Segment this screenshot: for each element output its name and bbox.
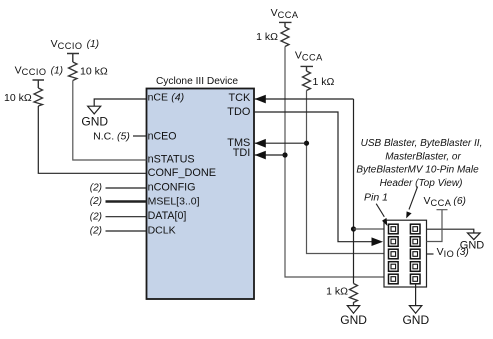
- power VCCA first bar symbol: [279, 22, 292, 27]
- svg-text:DATA[0]: DATA[0]: [148, 210, 187, 222]
- wire R1 to nSTATUS: [73, 81, 147, 161]
- svg-text:GND: GND: [340, 313, 367, 327]
- pin 10 square: [410, 274, 420, 284]
- power VCCA (6) bar symbol: [427, 210, 448, 242]
- pointer Pin 1 arrow: [376, 204, 384, 217]
- pin 5 square: [389, 249, 399, 259]
- junction dot TMS: [304, 141, 309, 146]
- junction dot TDI: [282, 152, 287, 157]
- wire header pin2 to GND: [427, 229, 474, 233]
- header J1 pins (both columns): [389, 224, 421, 284]
- resistor R5 1k zigzag: [350, 284, 358, 306]
- wire MSEL bus stub: [106, 200, 147, 202]
- pin 2 square: [410, 224, 420, 234]
- wire nCEO stub: [133, 135, 147, 137]
- svg-text:GND: GND: [81, 114, 108, 128]
- svg-text:ByteBlasterMV 10-Pin Male: ByteBlasterMV 10-Pin Male: [356, 165, 479, 176]
- arrowhead TMS into device: [255, 139, 266, 148]
- arrowhead TCK into device: [255, 95, 266, 104]
- svg-text:VIO(3): VIO(3): [437, 246, 469, 259]
- svg-text:VCCA(6): VCCA(6): [424, 195, 466, 208]
- svg-text:nSTATUS: nSTATUS: [148, 153, 195, 165]
- svg-text:nCE(4): nCE(4): [148, 91, 184, 103]
- power VCCIO second bar symbol: [33, 80, 45, 88]
- junction dot TCK: [351, 226, 356, 231]
- power VCCA second bar symbol: [301, 66, 314, 71]
- device U1 Cyclone III Device body: [147, 89, 255, 300]
- arrowhead TDI into device: [255, 151, 266, 160]
- wire TCK vertical: [353, 99, 355, 284]
- wire TDO net: [254, 112, 373, 242]
- svg-text:10 kΩ: 10 kΩ: [80, 66, 108, 78]
- wire header pin10 to GND: [415, 284, 417, 306]
- svg-text:N.C. (5): N.C. (5): [93, 131, 130, 143]
- svg-text:(2): (2): [90, 226, 102, 237]
- wire R2 to CONF_DONE: [38, 106, 146, 173]
- wire nCE to ground: [94, 99, 146, 106]
- svg-text:VCCA: VCCA: [295, 50, 323, 63]
- svg-text:Cyclone III Device: Cyclone III Device: [156, 76, 238, 87]
- svg-text:GND: GND: [402, 313, 429, 327]
- svg-text:10 kΩ: 10 kΩ: [4, 92, 32, 104]
- svg-text:VCCA: VCCA: [271, 7, 299, 20]
- resistor R1 10k zigzag: [69, 62, 78, 81]
- svg-text:Pin 1: Pin 1: [364, 191, 388, 203]
- svg-text:DCLK: DCLK: [148, 225, 176, 237]
- svg-text:1 kΩ: 1 kΩ: [326, 286, 348, 298]
- power VCCIO first bar symbol: [67, 54, 79, 63]
- svg-text:1 kΩ: 1 kΩ: [313, 76, 335, 88]
- pin 6 square: [410, 249, 420, 259]
- wire TMS horizontal: [254, 142, 307, 144]
- pin 3 square: [389, 237, 399, 247]
- pin 4 square: [410, 237, 420, 247]
- svg-text:USB Blaster, ByteBlaster II,: USB Blaster, ByteBlaster II,: [361, 138, 483, 149]
- wire TMS net vertical: [307, 91, 385, 254]
- svg-text:TCK: TCK: [229, 92, 252, 104]
- wire DCLK stub: [106, 230, 147, 232]
- pin 9 square: [389, 274, 399, 284]
- ground GND at nCE (open triangle): [88, 106, 101, 114]
- svg-text:(2): (2): [90, 183, 102, 194]
- ground GND below R5 (open triangle): [347, 306, 359, 314]
- svg-text:MasterBlaster, or: MasterBlaster, or: [385, 151, 461, 162]
- svg-text:CONF_DONE: CONF_DONE: [148, 167, 216, 179]
- wire DATA stub: [106, 216, 147, 218]
- svg-text:Header (Top View): Header (Top View): [380, 178, 463, 189]
- svg-text:nCONFIG: nCONFIG: [148, 182, 196, 194]
- wire nCONFIG stub: [106, 187, 147, 189]
- header J1 outline: [384, 220, 427, 287]
- pointer Header description arrow: [409, 187, 418, 210]
- svg-text:VCCIO(1): VCCIO(1): [15, 64, 63, 77]
- svg-text:TDO: TDO: [227, 106, 250, 118]
- resistor R3 1k zigzag: [281, 27, 289, 47]
- svg-text:nCEO: nCEO: [148, 131, 177, 143]
- svg-text:(2): (2): [90, 211, 102, 222]
- pin 1 square: [389, 224, 399, 234]
- arrowhead TDO into header: [372, 237, 384, 246]
- wire TDI horizontal: [254, 154, 285, 156]
- ground GND below header (open triangle): [409, 306, 421, 314]
- pin 8 square: [410, 262, 420, 272]
- wire TDI net vertical: [285, 47, 384, 278]
- ground GND right of header (open triangle): [468, 233, 481, 240]
- resistor R2 10k zigzag: [34, 88, 43, 106]
- svg-text:MSEL[3..0]: MSEL[3..0]: [148, 196, 200, 208]
- wire TCK to header pin 1: [354, 228, 385, 230]
- pin 7 square: [389, 262, 399, 272]
- resistor R4 1k zigzag: [303, 71, 311, 91]
- svg-text:(2): (2): [90, 196, 102, 207]
- wire header pin6 to VIO: [427, 253, 434, 255]
- svg-text:VCCIO(1): VCCIO(1): [51, 38, 99, 51]
- svg-text:TDI: TDI: [233, 147, 251, 159]
- wire TCK horizontal: [254, 98, 354, 100]
- svg-text:1 kΩ: 1 kΩ: [256, 31, 278, 43]
